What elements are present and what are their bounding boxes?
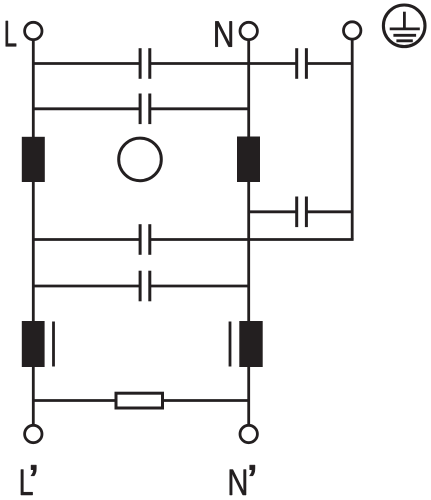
core line of L3: [52, 322, 55, 367]
capacitor C2 (L-N second): [140, 94, 150, 125]
terminal N': [240, 425, 257, 442]
wire row1 right segment: [307, 62, 352, 65]
resistor R1 (discharge resistor): [116, 393, 163, 408]
wire bottom row right segment: [163, 399, 249, 402]
inductor L3 (lower left choke): [22, 321, 45, 367]
capacitor C1 (L-N top): [140, 48, 150, 79]
wire row2 right segment: [150, 107, 248, 110]
wire L vertical: [32, 41, 35, 425]
wire rowE right segment (C6 to PE line): [307, 210, 352, 213]
label L' (line output): [21, 465, 36, 495]
wire bottom row left segment: [33, 399, 116, 402]
terminal L: [25, 22, 42, 39]
terminal PE: [344, 22, 361, 39]
capacitor C3 (L-N third): [140, 224, 150, 255]
wire row1 left segment: [33, 62, 139, 65]
core line of L4: [229, 322, 232, 367]
terminal N: [240, 22, 257, 39]
lamp indicator: [119, 138, 162, 181]
label L (line input): [6, 21, 16, 46]
inductor L1 (upper left choke): [22, 137, 45, 182]
capacitor C5 (N-PE top): [297, 48, 307, 79]
PE protective-earth symbol: [383, 5, 425, 47]
wire row3 left segment: [33, 238, 139, 241]
terminal L': [25, 425, 42, 442]
label N (neutral input): [215, 21, 232, 46]
inductor L2 (upper right choke): [237, 137, 260, 183]
wire row1 middle segment: [150, 62, 296, 65]
wire row4 left segment: [33, 285, 139, 288]
capacitor C6 (N-PE lower): [297, 197, 307, 228]
wire row2 left segment: [33, 107, 139, 110]
wire row3 right segment (to PE line): [150, 238, 353, 241]
wire PE vertical: [351, 40, 354, 239]
wire N vertical: [247, 41, 250, 425]
wire row4 right segment: [150, 285, 248, 288]
inductor L4 (lower right choke): [239, 321, 262, 367]
wire rowE left segment (N to C6): [249, 210, 296, 213]
label N' (neutral output): [230, 465, 255, 495]
capacitor C4 (L-N fourth): [140, 271, 150, 302]
